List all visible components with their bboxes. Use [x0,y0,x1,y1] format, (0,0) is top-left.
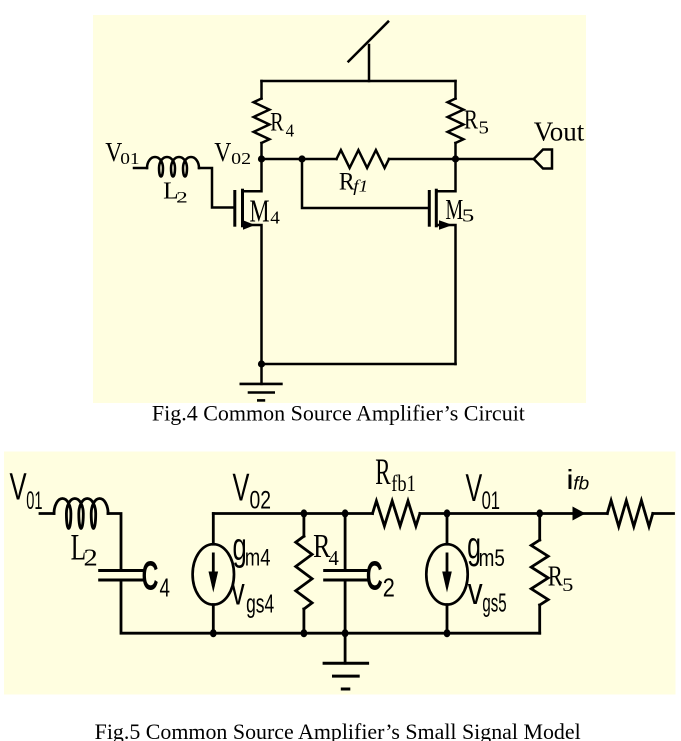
svg-text:Fig.4 Common Source Amplifier’: Fig.4 Common Source Amplifier’s Circuit [152,400,526,425]
svg-text:R: R [270,108,284,137]
wire C2 top fig5 [344,514,347,570]
resistor Rf1 zigzag [337,150,390,168]
svg-text:Fig.5 Common Source Amplifier’: Fig.5 Common Source Amplifier’s Small Si… [95,719,581,741]
inductor L2 coil fig5 [54,498,108,528]
wire R5 bottom fig5 [538,605,541,633]
gm5 arrow head [442,572,452,593]
svg-text:fb: fb [573,473,589,494]
M4 channel bar [241,190,244,226]
wire R4 bottom to node [260,143,263,159]
wire load resistor right [653,512,674,515]
svg-text:R: R [548,560,564,592]
wire R4 bottom fig5 [302,609,305,633]
svg-text:2: 2 [383,574,395,603]
wire V01 input [134,167,147,170]
svg-text:v: v [231,571,245,614]
svg-text:C: C [142,554,159,600]
svg-text:4: 4 [329,546,340,570]
node C2 top dot [342,509,349,517]
M5 drain leg wire [436,159,455,191]
svg-text:M: M [250,192,270,228]
resistor load zigzag fig5 [607,501,653,527]
wire V01 input fig5 [40,512,54,515]
svg-text:fb1: fb1 [391,470,416,496]
svg-text:5: 5 [562,574,573,596]
wire output with current arrow [540,512,608,515]
svg-text:5: 5 [462,206,474,225]
Vout terminal symbol [534,150,552,169]
M4 source leg wire [243,225,262,364]
VDD top rail wire [262,80,456,83]
capacitor C4 top plate [100,569,144,572]
svg-text:V: V [233,465,250,509]
wire gm5 top [446,514,449,545]
node R4 top dot [301,509,308,517]
svg-text:02: 02 [250,486,271,514]
current ifb arrow head [573,507,586,521]
resistor R5 zigzag fig5 [531,540,548,605]
wire R4 top fig5 [302,514,305,537]
ground bar 2 [249,391,274,394]
resistor R4 zigzag [254,99,270,144]
gm5 arrow shaft [446,554,449,585]
svg-text:gs5: gs5 [482,589,506,617]
power supply slash symbol [349,22,389,62]
wire to Vout terminal [456,158,534,161]
ground bar 3 fig5 [342,688,349,691]
wire R5 top [454,81,457,99]
svg-text:01: 01 [120,149,139,167]
ground bar 2 fig5 [334,675,359,678]
svg-text:5: 5 [479,119,489,138]
svg-text:2: 2 [83,545,97,571]
capacitor C4 bottom plate [100,579,144,582]
M5 channel bar [435,190,438,226]
gm4 arrow head [209,572,219,593]
M5 arrow [439,220,453,230]
svg-text:M: M [445,195,463,226]
M4 gate bar [233,192,236,226]
wire Rfb1 to gm5 node [420,512,540,515]
svg-text:V: V [465,465,482,509]
node R5 top dot [536,509,543,517]
node gm5 top dot [444,509,451,517]
svg-text:gs4: gs4 [246,589,274,618]
current source gm5 ellipse [426,544,467,604]
capacitor C2 bottom plate [325,579,367,582]
wire C2 bottom fig5 [344,582,347,634]
wire R5 bottom to node [454,143,457,159]
svg-text:C: C [366,554,383,600]
node C2/ground dot [342,629,349,637]
wire Rf1 to output node [389,158,456,161]
svg-text:01: 01 [26,487,42,515]
svg-text:2: 2 [176,189,188,207]
M4 drain leg wire [243,159,262,191]
svg-text:v: v [468,570,483,612]
ground node dot [258,360,265,367]
wire C4 to bottom rail [121,582,540,634]
node R4 bottom dot [301,629,308,637]
svg-text:02: 02 [231,150,251,168]
ground stub fig5 [344,633,347,663]
M4 arrow [243,220,255,230]
svg-text:m4: m4 [245,544,271,571]
wire gm4 top [212,514,215,545]
M5 gate bar [428,192,431,226]
svg-text:R: R [464,105,479,135]
gm4 arrow shaft [212,554,215,585]
ground stub wire [260,364,263,384]
node gm4 bottom dot [210,629,217,637]
figure 5 background panel [4,452,676,695]
top rail wire fig5 [213,512,372,515]
resistor R4 zigzag fig5 [296,536,312,609]
svg-text:4: 4 [286,121,295,140]
wire gm4 bottom [212,605,215,634]
ground bar 3 [258,399,264,402]
svg-text:V: V [214,137,231,167]
svg-text:m5: m5 [479,544,505,572]
wire R4 top [260,81,263,99]
inductor L2 coil [147,157,199,177]
node V02 junction dot [258,155,265,162]
wire inductor to M4 gate [199,168,234,208]
resistor R5 zigzag [448,99,464,144]
power supply stub wire [368,45,371,81]
svg-text:V: V [9,466,26,508]
wire R5 top fig5 [538,514,541,541]
node Vout junction dot [452,155,459,162]
wire branch to M5 gate [302,159,428,208]
wire gm5 bottom [446,605,449,634]
ground bar 1 [241,383,282,386]
svg-text:Vout: Vout [534,116,585,146]
bottom rail wire [262,363,456,366]
capacitor C2 top plate [325,569,367,572]
svg-text:R: R [375,452,391,493]
node M5-gate branch dot [298,155,305,162]
resistor Rfb1 zigzag [373,501,420,526]
svg-text:01: 01 [482,488,500,515]
svg-text:4: 4 [270,208,280,227]
node gm5 bottom dot [444,629,451,637]
svg-text:4: 4 [160,572,170,602]
figure 4 background panel [93,15,586,403]
ground bar 1 fig5 [324,662,368,665]
wire mid node to Rf1 [262,158,337,161]
M5 source leg wire [436,225,455,364]
wire coil to C4 corner [108,514,121,570]
current source gm4 ellipse [193,544,234,604]
svg-text:f1: f1 [353,176,368,195]
